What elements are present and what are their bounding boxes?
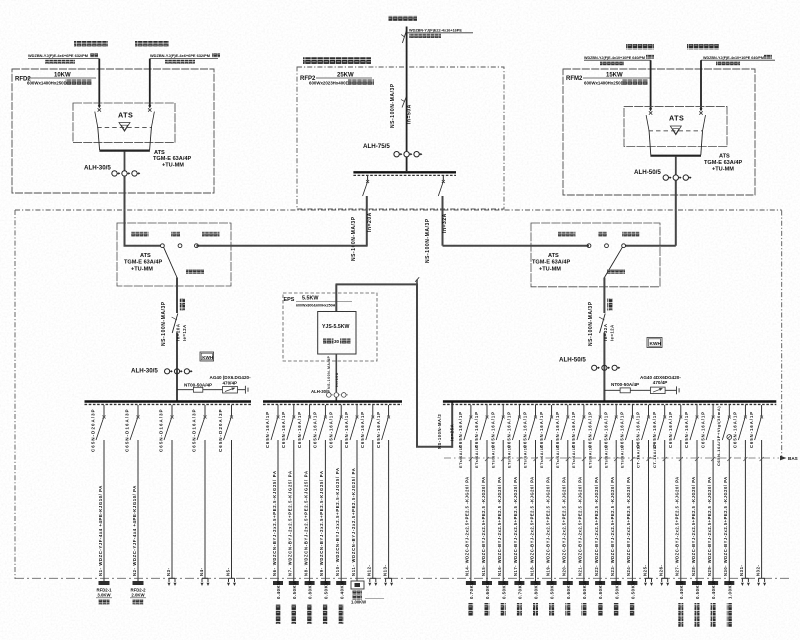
branch N4 wire xyxy=(204,440,206,578)
branch breaker In=32A xyxy=(442,176,444,181)
branch N30 breaker xyxy=(728,405,730,416)
branch N27 breaker xyxy=(680,405,682,416)
branch N13 breaker xyxy=(388,405,390,416)
branch N7 load terminal xyxy=(289,581,299,585)
transfer switch TS2 box xyxy=(531,223,660,287)
branch N1 load terminal xyxy=(99,581,110,585)
branch N3 spare arrows xyxy=(169,577,175,579)
branch N30 load terminal xyxy=(724,581,734,585)
TS1 terminal labels xyxy=(131,232,149,237)
incoming disconnect blade xyxy=(402,30,406,43)
branch N15 load terminal xyxy=(482,581,492,585)
TS2 terminal labels xyxy=(558,232,576,237)
TS2 output breaker xyxy=(600,314,606,334)
branch N13 spare arrows xyxy=(386,577,392,579)
branch N6 wire xyxy=(277,440,279,578)
branch N31 breaker xyxy=(744,405,746,416)
branch N19 load terminal xyxy=(547,581,557,585)
scan texture overlay xyxy=(0,0,1,1)
RFM2 output wire down xyxy=(675,180,677,245)
feeder label: power source (standby) xyxy=(135,41,169,46)
branch N26 breaker xyxy=(664,405,666,416)
branch N3 breaker xyxy=(171,405,173,416)
branch N32 spare arrows xyxy=(759,577,765,579)
branch N31 spare arrows xyxy=(742,577,748,579)
branch N21 wire xyxy=(583,440,585,578)
feeder wires into ATS U2 xyxy=(650,60,652,110)
branch N13 wire xyxy=(388,440,390,578)
leakage detect symbol N30 xyxy=(727,435,732,440)
ATS U2 switch blades xyxy=(646,115,649,131)
branch N32 breaker xyxy=(761,405,763,416)
branch N27 load terminal xyxy=(676,581,686,585)
branch N21 breaker xyxy=(583,405,585,416)
branch N22 load terminal xyxy=(595,581,605,585)
branch N24 wire xyxy=(631,440,633,578)
EPS output wire xyxy=(335,354,337,392)
branch N27 wire xyxy=(680,440,682,578)
bus 3 xyxy=(443,400,776,403)
wire to left transfer switch xyxy=(196,245,367,247)
label regional civil-defense source xyxy=(389,16,418,21)
branch N18 wire xyxy=(535,440,537,578)
TS1 feed from RFD2 xyxy=(124,245,161,247)
branch N28 wire xyxy=(696,440,698,578)
branch N15 wire xyxy=(486,440,488,578)
branch N6 breaker xyxy=(277,405,279,416)
branch N8 load terminal xyxy=(305,581,315,585)
branch N9 breaker xyxy=(324,405,326,416)
branch N28 load terminal xyxy=(692,581,702,585)
branch N8 breaker xyxy=(309,405,311,416)
branch N11 fan control box load xyxy=(356,578,358,581)
TS2 label manual operation xyxy=(607,270,625,274)
branch N5 spare arrows xyxy=(229,577,235,579)
branch N28 breaker xyxy=(696,405,698,416)
branch N15 breaker xyxy=(486,405,488,416)
branch N16 load terminal xyxy=(498,581,508,585)
TS2 blade xyxy=(604,247,622,277)
kWh meter tag right xyxy=(647,338,662,348)
TS1 output wire xyxy=(176,278,178,314)
feeder label: power source (normal) xyxy=(74,41,108,46)
feeder label: lighting source (normal) xyxy=(626,44,654,49)
main underground enclosure outline xyxy=(15,209,782,211)
branch N20 load terminal xyxy=(563,581,573,585)
branch N25 breaker xyxy=(648,405,650,416)
feeder wire normal into ATS U1 xyxy=(98,59,100,107)
RFP2 internal busbar xyxy=(353,171,456,173)
ATS U1 box xyxy=(73,103,175,143)
transfer switch TS1 box xyxy=(117,223,231,286)
protected zone boundary line xyxy=(15,577,792,579)
branch N16 breaker xyxy=(502,405,504,416)
branch N29 load terminal xyxy=(708,581,718,585)
branch N29 wire xyxy=(712,440,714,578)
branch N25 wire xyxy=(648,440,650,578)
TS2 terminals xyxy=(587,244,591,248)
branch N11 breaker xyxy=(356,405,358,416)
feeder label: lighting source (standby) xyxy=(687,44,719,49)
header label (civil air defense distribution box) xyxy=(303,57,371,64)
branch N14 breaker xyxy=(470,405,472,416)
branch N29 breaker xyxy=(712,405,714,416)
branch N24 breaker xyxy=(631,405,633,416)
cabinet RFP2 outline xyxy=(297,67,504,209)
branch N11 wire xyxy=(356,440,358,578)
distribution cabinet RFM2 outline xyxy=(563,69,755,195)
branch N10 wire xyxy=(340,440,342,578)
branch N6 load terminal xyxy=(273,581,283,585)
EPS feed down to lighting bus xyxy=(416,284,418,447)
branch N5 breaker xyxy=(231,405,233,416)
branch N26 wire xyxy=(664,440,666,578)
bus 2 xyxy=(263,400,402,403)
EPS cabinet outline xyxy=(283,293,377,361)
meter ALH-30/5 xyxy=(124,152,126,171)
branch N4 breaker xyxy=(204,405,206,416)
branch N14 load terminal xyxy=(466,581,476,585)
TS1 output breaker NS-100N-MA/3P xyxy=(172,314,178,334)
branch N9 load terminal xyxy=(320,581,330,585)
branch N2 wire xyxy=(137,440,139,578)
branch N2 load terminal xyxy=(133,581,144,585)
RFD2 output wire down to transfer switch xyxy=(124,176,126,246)
branch N20 wire xyxy=(567,440,569,578)
branch N18 breaker xyxy=(535,405,537,416)
branch N23 wire xyxy=(615,440,617,578)
fuse NT00-50A/4P + surge arrester AG40 branch xyxy=(177,389,245,391)
branch N21 load terminal xyxy=(579,581,589,585)
branch N16 wire xyxy=(502,440,504,578)
ATS U2 output bar xyxy=(650,155,701,157)
incoming supply wire xyxy=(406,27,408,152)
wire to right transfer switch xyxy=(443,245,590,247)
kWh meter tag xyxy=(200,352,214,361)
branch N3 wire xyxy=(171,440,173,578)
branch N24 load terminal xyxy=(627,581,637,585)
meter ALH-50/5 xyxy=(675,157,677,175)
branch N22 wire xyxy=(599,440,601,578)
branch N10 breaker xyxy=(340,405,342,416)
branch N18 load terminal xyxy=(531,581,541,585)
branch N26 spare arrows xyxy=(662,577,668,579)
ATS U1 triangle contact xyxy=(119,123,130,132)
branch N1 breaker xyxy=(103,405,105,416)
branch N4 spare arrows xyxy=(202,577,208,579)
branch N8 wire xyxy=(309,440,311,578)
TS1 blade xyxy=(164,247,177,277)
branch N25 spare arrows xyxy=(646,577,652,579)
branch N31 wire xyxy=(744,440,746,578)
bus 1 xyxy=(85,400,252,403)
branch N22 breaker xyxy=(599,405,601,416)
TS2 output wire xyxy=(603,278,605,314)
EPS feed tap xyxy=(415,277,419,282)
feeder wire standby into ATS U1 xyxy=(149,59,151,107)
branch N7 breaker xyxy=(293,405,295,416)
EPS unit YJS-5.5KW xyxy=(318,312,356,355)
branch N7 wire xyxy=(293,440,295,578)
branch N5 wire xyxy=(231,440,233,578)
ATS U1 switch blades xyxy=(95,112,98,128)
branch N23 breaker xyxy=(615,405,617,416)
branch breaker In=20A xyxy=(367,176,369,181)
branch N20 breaker xyxy=(567,405,569,416)
branch N1 wire xyxy=(103,440,105,578)
branch N14 wire xyxy=(470,440,472,578)
branch N19 breaker xyxy=(551,405,553,416)
distribution cabinet RFD2 outline xyxy=(12,69,214,193)
branch N12 breaker xyxy=(372,405,374,416)
ATS U2 triangle contact xyxy=(670,126,681,135)
branch N17 breaker xyxy=(518,405,520,416)
branch N32 wire xyxy=(761,440,763,578)
TS1 terminals xyxy=(161,244,165,248)
TS1 label manual operation xyxy=(186,270,204,274)
branch N2 breaker xyxy=(137,405,139,416)
TS2 feed from RFM2 xyxy=(626,245,676,247)
ATS U1 output bar xyxy=(99,150,149,152)
branch N23 load terminal xyxy=(611,581,621,585)
branch N19 wire xyxy=(551,440,553,578)
fuse + surge arrester branch right xyxy=(604,389,676,391)
branch N17 wire xyxy=(518,440,520,578)
branch N12 spare arrows xyxy=(370,577,376,579)
branch N30 wire xyxy=(728,440,730,578)
branch N12 wire xyxy=(372,440,374,578)
branch N10 load terminal xyxy=(336,581,346,585)
branch N9 wire xyxy=(324,440,326,578)
BAS monitoring line xyxy=(444,457,779,459)
ATS U2 box xyxy=(624,107,727,147)
branch N17 load terminal xyxy=(514,581,524,585)
